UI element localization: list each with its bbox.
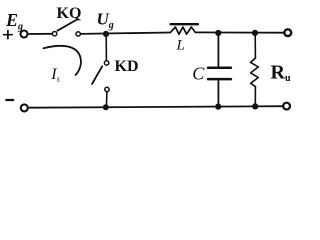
current arrow Is (arc): [44, 46, 81, 75]
svg-text:Is: Is: [50, 66, 59, 84]
switch KQ right contact: [76, 32, 80, 36]
svg-text:Ru: Ru: [271, 62, 291, 85]
capacitor C top lead: [217, 33, 219, 67]
wire top-right (inductor to right terminal): [195, 31, 283, 33]
node junction dot C bottom: [215, 104, 221, 110]
terminal + left top: [21, 31, 28, 38]
node junction dot KD bottom: [103, 104, 109, 110]
node Ug junction dot: [103, 31, 109, 37]
node junction dot R top: [252, 30, 258, 36]
terminal right top: [284, 29, 291, 36]
svg-text:KD: KD: [115, 58, 139, 75]
svg-text:Eg: Eg: [5, 10, 23, 33]
resistor Ru zigzag: [251, 58, 259, 87]
wire top-mid (KQ to inductor): [81, 33, 171, 34]
capacitor C top plate: [208, 67, 231, 70]
capacitor C bottom plate: [208, 78, 231, 81]
svg-text:L: L: [176, 38, 185, 54]
svg-text:Ug: Ug: [97, 9, 114, 31]
inductor L core bar: [171, 23, 198, 25]
terminal right bottom: [283, 103, 290, 110]
svg-text:KQ: KQ: [57, 5, 82, 22]
wire top-left (terminal+ to KQ): [28, 33, 52, 35]
switch KD bottom contact: [105, 87, 109, 91]
minus sign: [6, 99, 13, 101]
switch KQ blade: [57, 20, 76, 31]
svg-text:C: C: [192, 64, 205, 84]
wire KD bottom contact to bottom rail: [105, 92, 108, 107]
resistor Ru bottom lead: [254, 87, 256, 107]
terminal - left bottom: [21, 104, 28, 111]
wire node Ug down to KD: [105, 34, 107, 60]
resistor Ru top lead: [254, 33, 256, 58]
node junction dot R bottom: [252, 103, 258, 109]
node junction dot C top: [215, 30, 221, 36]
wire bottom rail: [29, 106, 283, 108]
switch KQ left contact: [52, 32, 56, 36]
switch KD blade: [92, 66, 102, 84]
switch KD top contact: [104, 61, 108, 65]
plus sign: [4, 31, 13, 39]
capacitor C bottom lead: [217, 79, 219, 107]
inductor L winding: [170, 27, 195, 34]
